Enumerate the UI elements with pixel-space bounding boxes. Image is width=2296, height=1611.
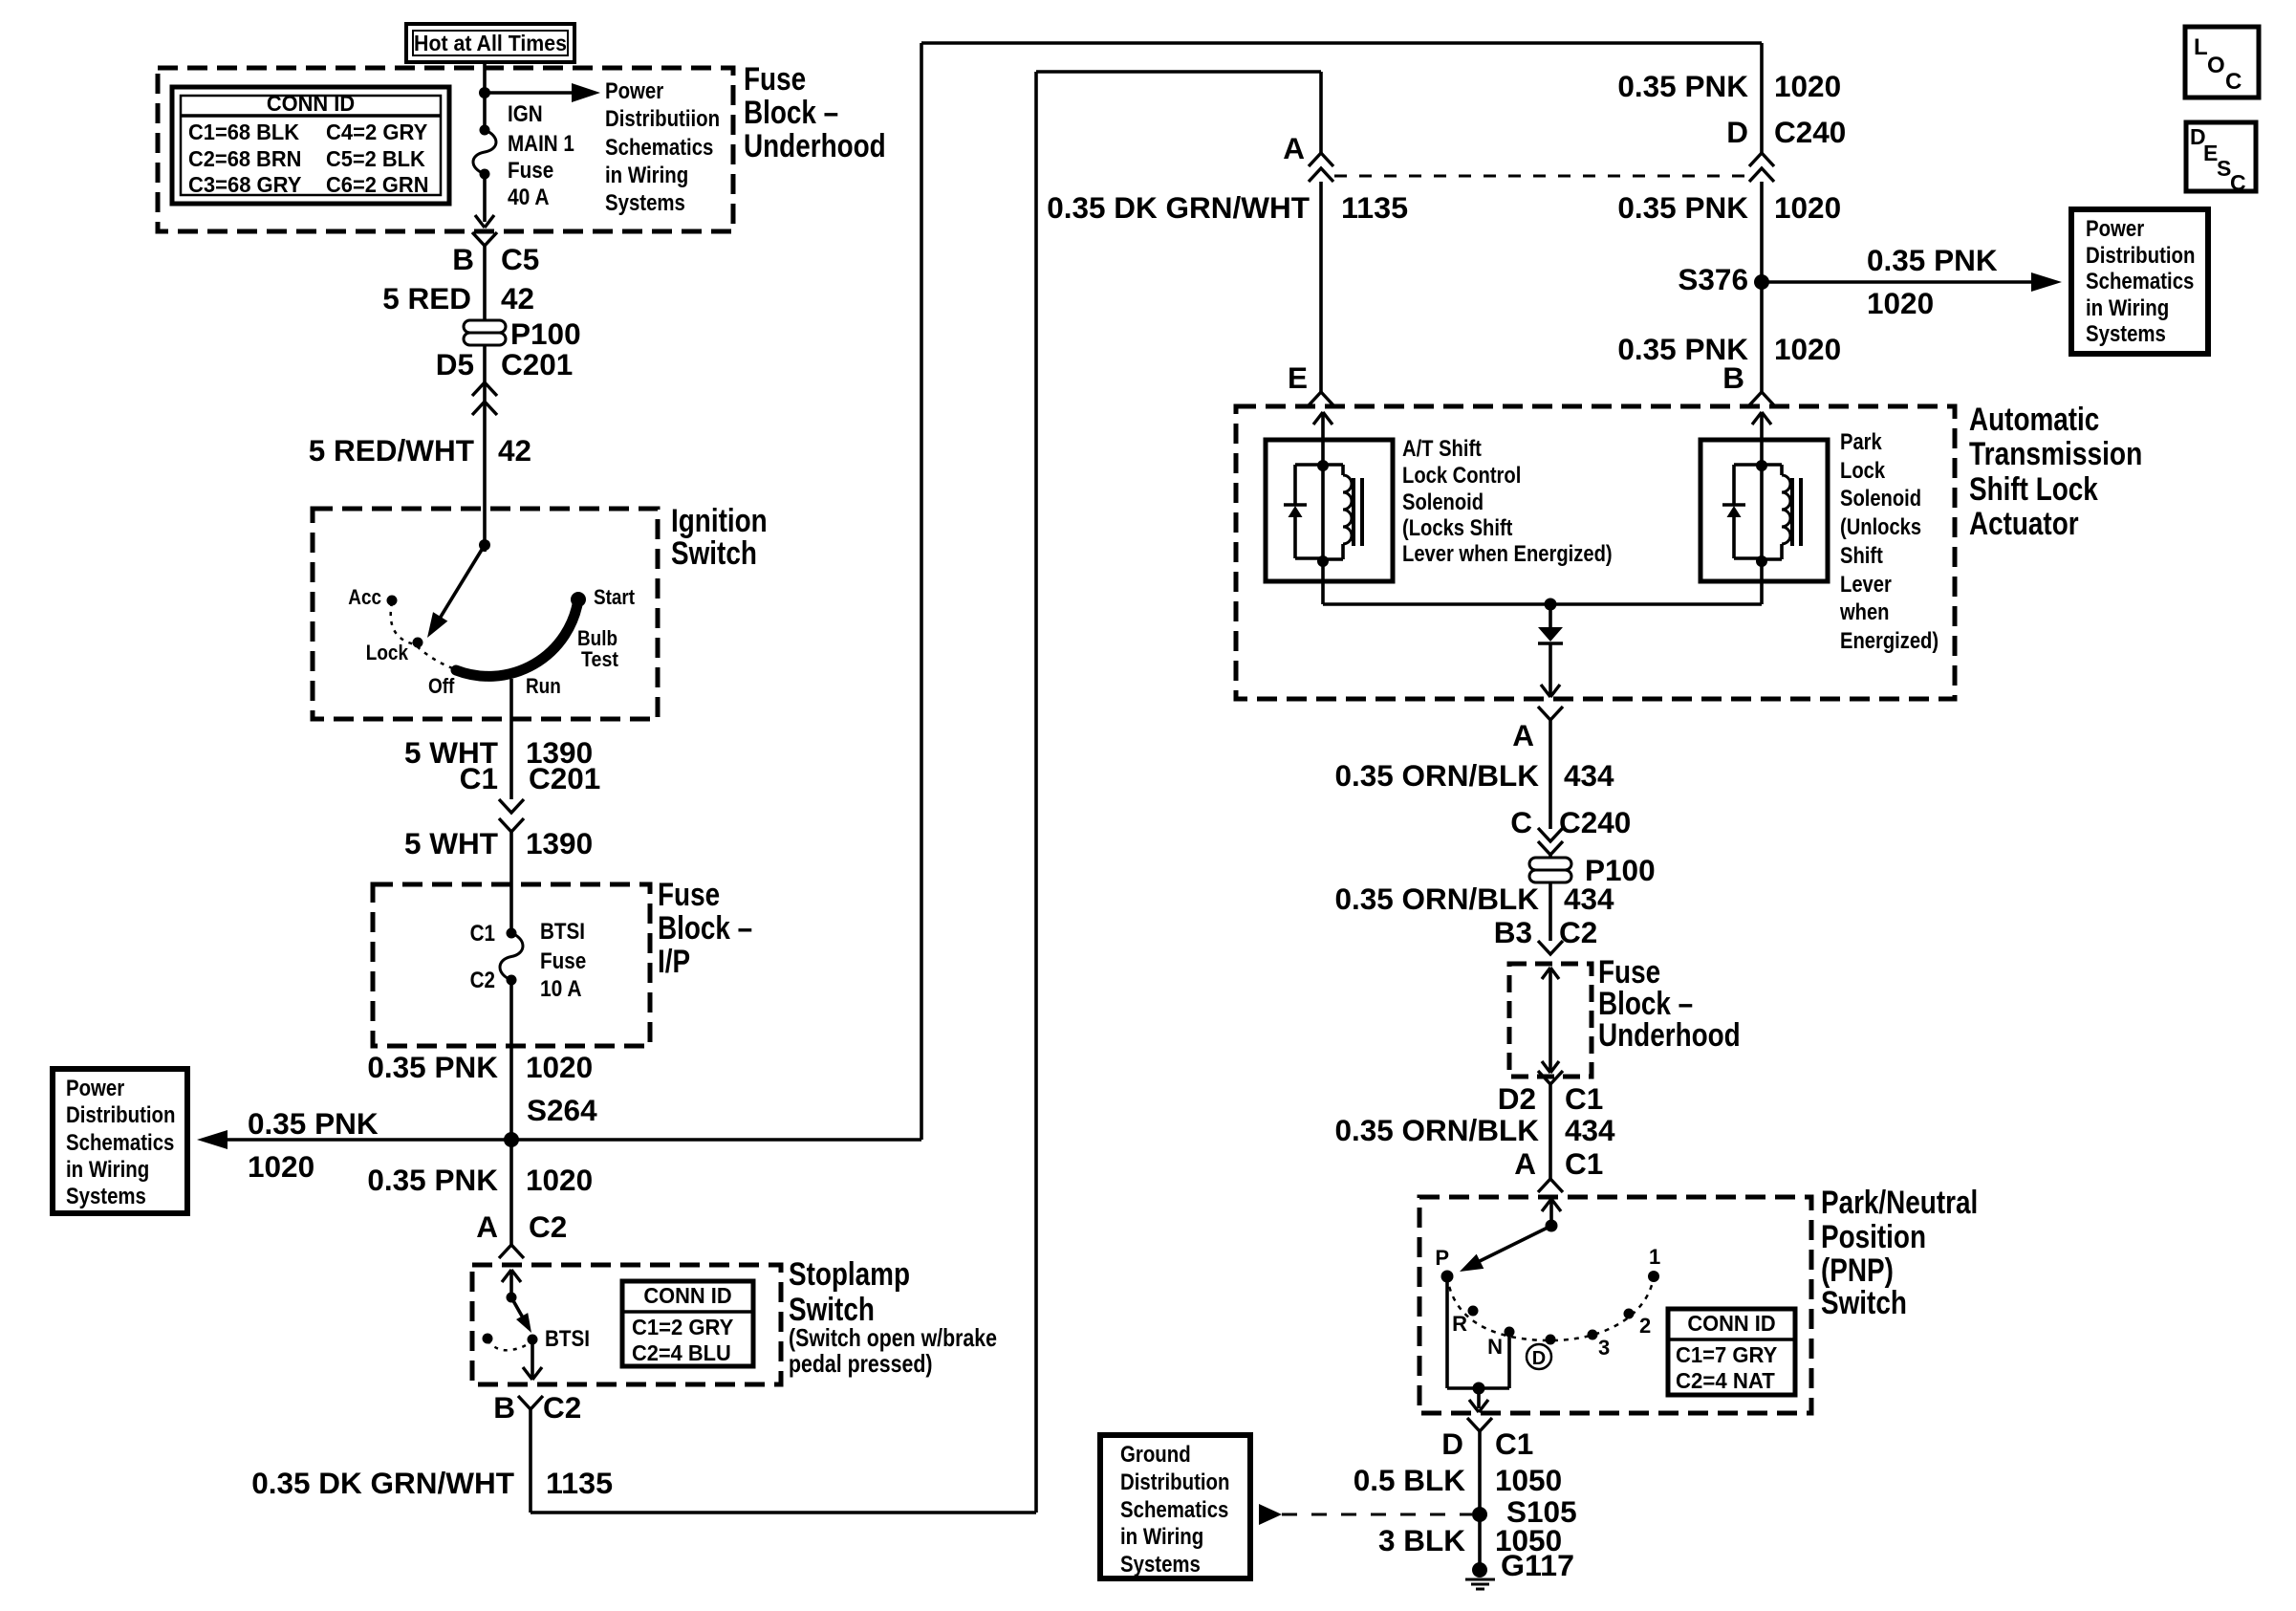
svg-text:Stoplamp: Stoplamp [789, 1256, 910, 1293]
svg-text:Lever: Lever [1840, 572, 1892, 598]
svg-text:5 WHT: 5 WHT [404, 826, 498, 860]
svg-text:Schematics: Schematics [66, 1130, 174, 1156]
svg-text:C: C [2225, 69, 2242, 95]
svg-text:A: A [1283, 131, 1305, 165]
svg-text:C: C [1510, 805, 1532, 839]
svg-text:1020: 1020 [1774, 190, 1841, 225]
svg-text:D2: D2 [1498, 1081, 1536, 1116]
svg-text:pedal pressed): pedal pressed) [789, 1349, 933, 1378]
svg-text:3: 3 [1598, 1336, 1610, 1360]
svg-text:C6=2 GRN: C6=2 GRN [326, 172, 429, 197]
svg-text:C4=2 GRY: C4=2 GRY [326, 120, 427, 144]
svg-text:Lock Control: Lock Control [1402, 463, 1521, 489]
svg-text:A: A [1514, 1146, 1536, 1181]
svg-text:(PNP): (PNP) [1821, 1252, 1894, 1289]
svg-text:Shift Lock: Shift Lock [1969, 471, 2098, 508]
svg-text:Systems: Systems [1120, 1552, 1201, 1578]
svg-text:0.35 PNK: 0.35 PNK [1617, 69, 1748, 103]
svg-text:MAIN 1: MAIN 1 [508, 131, 574, 157]
svg-text:C: C [2230, 170, 2246, 195]
svg-text:Actuator: Actuator [1969, 506, 2079, 542]
svg-text:1135: 1135 [1341, 190, 1408, 225]
svg-text:B: B [493, 1390, 515, 1425]
svg-text:0.35 PNK: 0.35 PNK [1867, 243, 1998, 277]
svg-text:C201: C201 [529, 761, 600, 795]
svg-text:434: 434 [1564, 882, 1614, 916]
svg-text:Power: Power [2086, 216, 2144, 242]
svg-text:C5: C5 [501, 242, 539, 276]
svg-text:R: R [1452, 1312, 1467, 1336]
svg-text:CONN ID: CONN ID [643, 1283, 731, 1308]
svg-text:I/P: I/P [658, 944, 690, 980]
svg-text:(Switch open w/brake: (Switch open w/brake [789, 1323, 997, 1352]
svg-text:1020: 1020 [526, 1050, 593, 1084]
svg-text:Ground: Ground [1120, 1442, 1191, 1468]
svg-text:1050: 1050 [1495, 1463, 1562, 1497]
svg-text:Schematics: Schematics [605, 135, 713, 161]
svg-text:Switch: Switch [671, 535, 757, 572]
svg-text:Systems: Systems [66, 1184, 146, 1209]
svg-text:(Unlocks: (Unlocks [1840, 514, 1921, 540]
svg-text:C1: C1 [1565, 1081, 1603, 1116]
svg-text:Hot at All Times: Hot at All Times [414, 31, 567, 55]
svg-text:Acc: Acc [348, 585, 381, 609]
svg-text:L: L [2194, 34, 2208, 60]
svg-text:Solenoid: Solenoid [1840, 486, 1921, 512]
svg-text:S376: S376 [1678, 262, 1748, 296]
svg-text:Underhood: Underhood [1598, 1017, 1741, 1054]
svg-text:Test: Test [581, 647, 618, 671]
svg-text:A: A [476, 1209, 498, 1244]
svg-text:C240: C240 [1774, 115, 1846, 149]
svg-text:Power: Power [605, 78, 663, 104]
svg-text:1: 1 [1649, 1245, 1660, 1269]
svg-text:3 BLK: 3 BLK [1378, 1523, 1465, 1557]
svg-text:B: B [452, 242, 474, 276]
svg-text:C2=68 BRN: C2=68 BRN [188, 146, 301, 171]
svg-text:Automatic: Automatic [1969, 402, 2099, 438]
svg-text:C1: C1 [1495, 1426, 1533, 1461]
svg-text:Switch: Switch [1821, 1285, 1907, 1321]
svg-text:1020: 1020 [248, 1149, 314, 1184]
svg-text:Transmission: Transmission [1969, 436, 2142, 472]
svg-text:D: D [1726, 115, 1748, 149]
svg-text:Shift: Shift [1840, 543, 1883, 569]
svg-text:Systems: Systems [2086, 321, 2166, 347]
svg-text:0.35 ORN/BLK: 0.35 ORN/BLK [1335, 1113, 1540, 1147]
svg-text:40 A: 40 A [508, 185, 550, 210]
svg-text:CONN ID: CONN ID [267, 91, 355, 116]
svg-text:Power: Power [66, 1076, 124, 1101]
svg-text:S264: S264 [527, 1093, 597, 1127]
svg-text:Distribution: Distribution [66, 1102, 176, 1128]
svg-text:B: B [1722, 360, 1744, 395]
svg-text:Distribution: Distribution [1120, 1469, 1230, 1495]
svg-text:42: 42 [498, 433, 531, 468]
svg-text:5 RED/WHT: 5 RED/WHT [309, 433, 474, 468]
svg-text:N: N [1487, 1335, 1503, 1359]
svg-text:C201: C201 [501, 347, 573, 381]
svg-text:P100: P100 [510, 316, 581, 351]
svg-text:A/T Shift: A/T Shift [1402, 436, 1482, 462]
svg-text:CONN ID: CONN ID [1687, 1311, 1775, 1336]
svg-text:(Locks Shift: (Locks Shift [1402, 515, 1512, 541]
svg-text:Lever when Energized): Lever when Energized) [1402, 541, 1613, 567]
svg-text:Block –: Block – [744, 95, 838, 131]
svg-text:C2: C2 [543, 1390, 581, 1425]
svg-text:in Wiring: in Wiring [66, 1157, 149, 1183]
svg-text:when: when [1839, 599, 1889, 625]
svg-text:C3=68 GRY: C3=68 GRY [188, 172, 301, 197]
svg-text:A: A [1512, 718, 1534, 752]
svg-text:Lock: Lock [1840, 458, 1886, 484]
svg-text:C2: C2 [1559, 915, 1597, 949]
svg-text:0.35 ORN/BLK: 0.35 ORN/BLK [1335, 758, 1540, 793]
svg-text:C1: C1 [470, 921, 495, 947]
svg-text:C1: C1 [460, 761, 498, 795]
svg-text:0.5 BLK: 0.5 BLK [1354, 1463, 1466, 1497]
svg-text:0.35 DK GRN/WHT: 0.35 DK GRN/WHT [251, 1466, 514, 1500]
svg-text:Fuse: Fuse [540, 948, 586, 974]
svg-text:C1: C1 [1565, 1146, 1603, 1181]
svg-text:Run: Run [526, 674, 561, 698]
svg-text:B3: B3 [1494, 915, 1532, 949]
svg-text:D: D [1532, 1348, 1546, 1369]
svg-text:0.35 ORN/BLK: 0.35 ORN/BLK [1335, 882, 1540, 916]
svg-text:434: 434 [1564, 758, 1614, 793]
svg-text:C2: C2 [529, 1209, 567, 1244]
svg-text:in Wiring: in Wiring [2086, 295, 2169, 321]
svg-text:Park: Park [1840, 429, 1882, 455]
svg-text:Energized): Energized) [1840, 628, 1939, 654]
svg-text:Fuse: Fuse [658, 877, 720, 913]
svg-text:2: 2 [1639, 1314, 1651, 1338]
svg-text:in Wiring: in Wiring [1120, 1524, 1203, 1550]
svg-text:1135: 1135 [546, 1466, 613, 1500]
svg-text:Fuse: Fuse [508, 158, 553, 184]
svg-text:1020: 1020 [526, 1163, 593, 1197]
svg-text:Position: Position [1821, 1219, 1926, 1255]
svg-text:C2: C2 [470, 968, 495, 993]
svg-text:434: 434 [1565, 1113, 1615, 1147]
svg-text:0.35 PNK: 0.35 PNK [248, 1106, 379, 1141]
svg-text:1020: 1020 [1774, 332, 1841, 366]
svg-text:0.35 PNK: 0.35 PNK [367, 1050, 498, 1084]
svg-text:0.35 PNK: 0.35 PNK [367, 1163, 498, 1197]
svg-text:1020: 1020 [1867, 286, 1934, 320]
svg-text:Start: Start [594, 585, 636, 609]
svg-text:Lock: Lock [366, 641, 409, 664]
svg-text:C1=68 BLK: C1=68 BLK [188, 120, 299, 144]
svg-text:C1=7 GRY: C1=7 GRY [1676, 1342, 1777, 1367]
svg-text:IGN: IGN [508, 101, 543, 127]
svg-text:C240: C240 [1559, 805, 1631, 839]
svg-text:C2=4 NAT: C2=4 NAT [1676, 1368, 1775, 1393]
svg-text:D5: D5 [436, 347, 474, 381]
svg-text:Schematics: Schematics [1120, 1497, 1228, 1523]
svg-text:C1=2 GRY: C1=2 GRY [632, 1315, 733, 1339]
svg-text:1020: 1020 [1774, 69, 1841, 103]
svg-text:42: 42 [501, 281, 534, 316]
svg-text:C2=4 BLU: C2=4 BLU [632, 1340, 731, 1365]
svg-text:Underhood: Underhood [744, 128, 886, 164]
svg-text:P: P [1435, 1246, 1449, 1270]
svg-text:C5=2 BLK: C5=2 BLK [326, 146, 425, 171]
svg-text:Park/Neutral: Park/Neutral [1821, 1185, 1978, 1221]
svg-text:Block –: Block – [658, 910, 752, 947]
svg-text:D: D [1441, 1426, 1463, 1461]
svg-text:Solenoid: Solenoid [1402, 490, 1484, 515]
svg-text:0.35 PNK: 0.35 PNK [1617, 190, 1748, 225]
svg-text:Distributiion: Distributiion [605, 106, 720, 132]
svg-text:BTSI: BTSI [540, 919, 585, 945]
svg-text:Ignition: Ignition [671, 503, 768, 539]
svg-text:Off: Off [428, 674, 455, 698]
svg-text:Systems: Systems [605, 190, 685, 216]
svg-text:Distribution: Distribution [2086, 243, 2196, 269]
svg-text:1390: 1390 [526, 826, 593, 860]
svg-text:0.35 DK GRN/WHT: 0.35 DK GRN/WHT [1047, 190, 1310, 225]
svg-text:Schematics: Schematics [2086, 269, 2194, 294]
svg-text:Fuse: Fuse [744, 61, 806, 98]
svg-text:G117: G117 [1501, 1548, 1574, 1582]
svg-text:5 RED: 5 RED [382, 281, 471, 316]
svg-text:BTSI: BTSI [545, 1326, 590, 1352]
svg-text:O: O [2207, 53, 2225, 78]
svg-text:10 A: 10 A [540, 976, 582, 1002]
svg-text:E: E [1288, 360, 1308, 395]
svg-text:in Wiring: in Wiring [605, 163, 688, 188]
